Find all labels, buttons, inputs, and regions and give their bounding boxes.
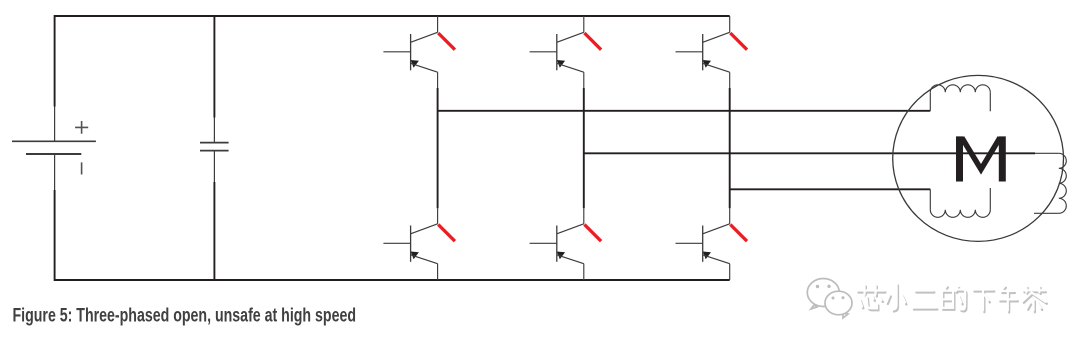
- svg-text:Figure 5: Three-phased open, u: Figure 5: Three-phased open, unsafe at h…: [13, 306, 357, 327]
